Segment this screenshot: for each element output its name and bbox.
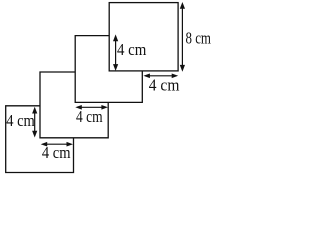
square A (top-right, 8 cm) (109, 3, 178, 71)
dimension arrow 4 cm (horizontal, below square C inside square D) (41, 142, 73, 147)
square C (third from top) (40, 72, 108, 138)
svg-text:8 cm: 8 cm (186, 28, 212, 47)
dimension arrow 4 cm (vertical, inside square A) (113, 34, 118, 71)
svg-text:4 cm: 4 cm (76, 107, 103, 126)
svg-text:4 cm: 4 cm (149, 75, 180, 94)
square B (second from top) (75, 36, 142, 103)
svg-text:4 cm: 4 cm (117, 40, 146, 59)
square D (bottom-left) (6, 106, 74, 173)
dimension arrow 4 cm (horizontal, below square B inside square C) (75, 105, 108, 110)
svg-text:4 cm: 4 cm (42, 143, 71, 162)
dimension arrow 4 cm (horizontal, below square A bottom-right) (143, 74, 178, 79)
dimension arrow 4 cm (vertical, left inside square D) (32, 107, 37, 138)
svg-text:4 cm: 4 cm (6, 111, 35, 130)
dimension arrow 8 cm (right side of square A) (180, 2, 185, 72)
